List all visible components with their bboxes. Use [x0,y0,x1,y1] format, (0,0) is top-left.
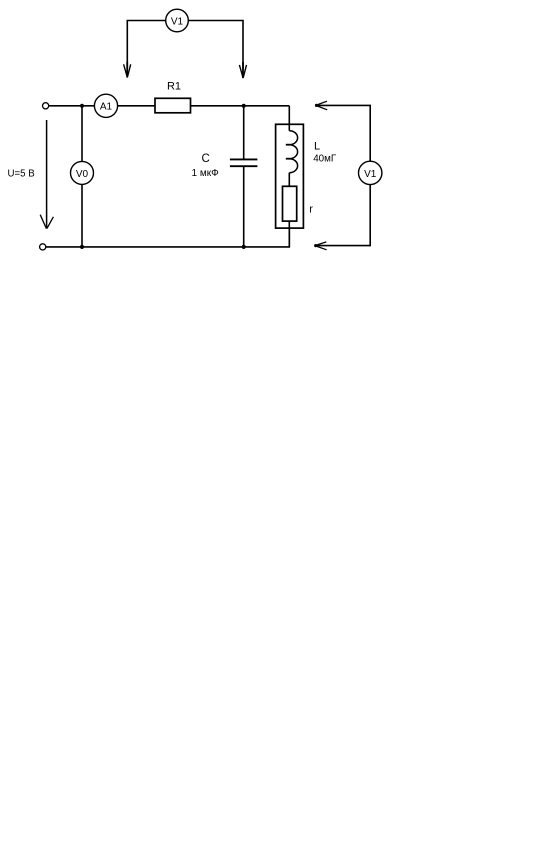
svg-text:V1: V1 [171,16,184,27]
svg-text:r: r [309,204,313,216]
svg-text:1 мкФ: 1 мкФ [192,168,220,179]
inductor L coil [286,131,298,173]
svg-text:A1: A1 [100,102,113,113]
arrow bottom lead of right V1 voltmeter [314,242,327,250]
svg-text:R1: R1 [167,80,181,92]
wire top: R1 to top-right corner [191,105,290,107]
wire bottom [46,228,289,247]
wire top-right from V1 top voltmeter to right arrow corner [188,21,243,69]
wire top-left from V1 top voltmeter to left arrow corner [127,21,165,69]
arrow U source direction [40,120,53,229]
terminal top-left input [43,103,49,109]
wire resistor r to bottom [288,221,290,247]
voltmeter V1 top [166,9,189,32]
arrow left (down) of top V1 leads [124,62,131,78]
arrow top lead of right V1 voltmeter [315,101,327,110]
node junction top of capacitor branch [242,104,246,108]
node junction bottom of V0 branch [80,245,84,249]
wire right V1 top lead [316,105,371,161]
L-r component box [276,124,304,228]
svg-text:40мГ: 40мГ [313,153,337,164]
resistor R1 [155,80,191,113]
node junction bottom of capacitor branch [242,245,246,249]
terminal bottom-left input [40,244,46,250]
wire: A1 to R1 [118,105,155,107]
wire right V1 bottom lead [315,185,370,246]
capacitor C wires [243,106,245,247]
svg-text:L: L [314,140,320,152]
svg-text:U=5 В: U=5 В [8,169,35,180]
node junction top of V0 branch [80,104,84,108]
voltmeter V0 branch wires [81,106,83,247]
resistor r [283,186,297,221]
capacitor C plates [230,159,258,166]
svg-text:C: C [202,153,210,165]
wire right vertical into L-r box [288,106,290,131]
svg-text:V1: V1 [364,169,377,180]
voltmeter V1 right [359,161,382,184]
voltmeter V0 [71,161,94,184]
arrow right (down) of top V1 leads [239,62,246,78]
ammeter A1 [94,94,117,117]
svg-text:V0: V0 [76,169,89,180]
wire inductor to resistor r [288,173,290,187]
wire top: terminal to ammeter A1 [49,105,95,107]
